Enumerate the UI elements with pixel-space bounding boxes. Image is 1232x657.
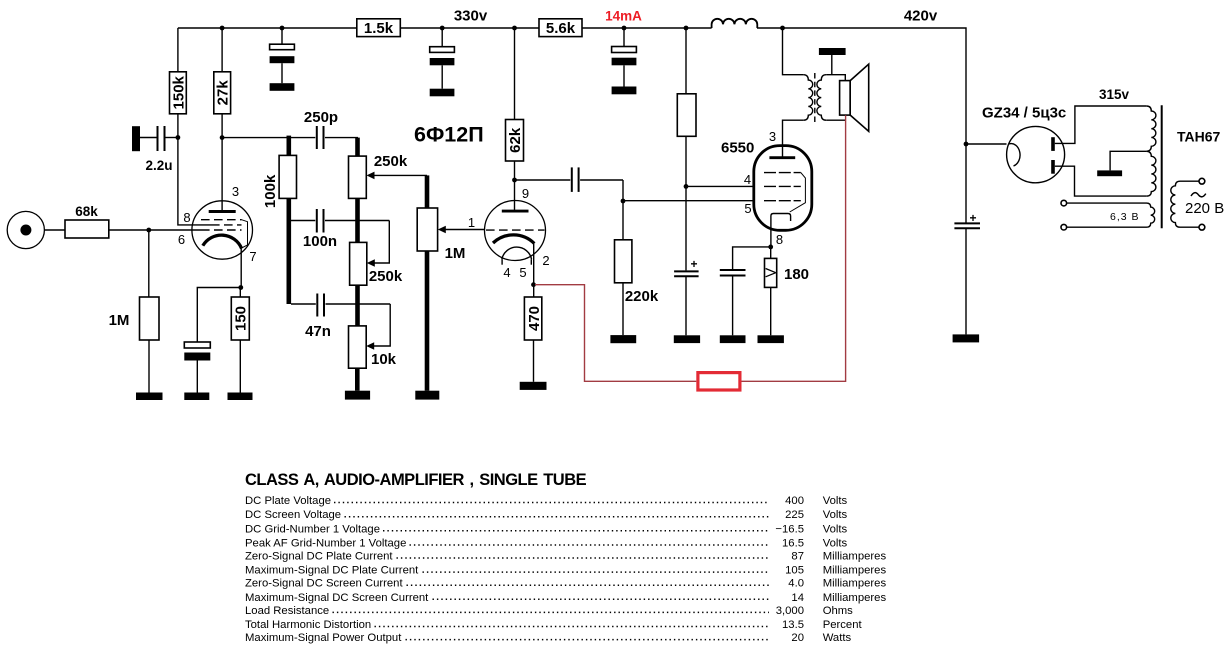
svg-text:6550: 6550 <box>721 140 754 157</box>
svg-text:6: 6 <box>178 232 185 247</box>
triode V1a (6F12P) <box>192 201 253 259</box>
svg-text:+: + <box>691 257 698 271</box>
resistor 1.5k <box>357 19 401 37</box>
svg-text:Total Harmonic Distortion: Total Harmonic Distortion <box>245 619 371 631</box>
svg-text:470: 470 <box>526 306 543 331</box>
svg-text:5: 5 <box>519 265 526 280</box>
cathode <box>203 235 242 248</box>
resistor 100k <box>279 155 296 198</box>
core <box>1161 105 1163 228</box>
wire PSU <box>964 142 969 147</box>
wire to grid <box>109 229 201 231</box>
wire top rail segment 2 <box>400 27 539 29</box>
svg-text:DC Plate Voltage: DC Plate Voltage <box>245 495 331 507</box>
pot 250k top <box>355 138 360 157</box>
svg-text:Maximum-Signal DC Plate Curren: Maximum-Signal DC Plate Current <box>245 565 419 577</box>
svg-text:Milliamperes: Milliamperes <box>823 551 887 563</box>
capacitor 250p <box>291 137 315 139</box>
svg-text:Milliamperes: Milliamperes <box>823 578 887 590</box>
ground <box>415 391 439 400</box>
ground <box>610 335 636 343</box>
ground <box>520 382 547 390</box>
svg-text:Watts: Watts <box>823 632 852 644</box>
svg-text:220 В: 220 В <box>1185 200 1224 217</box>
ground <box>270 83 295 91</box>
svg-text:100k: 100k <box>262 174 279 208</box>
svg-text:Zero-Signal DC Plate Current: Zero-Signal DC Plate Current <box>245 551 393 563</box>
svg-text:Ohms: Ohms <box>823 605 853 617</box>
svg-text:3: 3 <box>769 129 776 144</box>
capacitor 2.2u <box>132 126 140 151</box>
wire cathode to 470 <box>533 244 535 298</box>
ground <box>612 87 637 95</box>
node anode junction of first triode <box>220 135 225 140</box>
svg-text:Zero-Signal DC Screen Current: Zero-Signal DC Screen Current <box>245 578 403 590</box>
ground <box>136 393 163 401</box>
resistor 220k <box>615 240 632 283</box>
capacitor 47n <box>291 303 316 305</box>
core <box>814 73 816 122</box>
svg-text:6,3 В: 6,3 В <box>1110 211 1140 223</box>
svg-text:10k: 10k <box>371 351 397 368</box>
resistor 470 <box>524 297 541 340</box>
svg-text:3: 3 <box>232 184 239 199</box>
wire grid4 <box>686 185 754 187</box>
svg-text:62k: 62k <box>507 127 524 153</box>
svg-text:CLASS A, AUDIO-AMPLIFIER , S: CLASS A, AUDIO-AMPLIFIER , SINGLE TUBE <box>245 471 587 489</box>
ground above secondary <box>831 55 833 75</box>
svg-text:400: 400 <box>785 495 804 507</box>
pot 1M volume <box>425 175 430 208</box>
primary winding 220V <box>1171 181 1180 227</box>
pot 10k <box>349 326 367 368</box>
speaker <box>840 81 851 116</box>
cathode 6550 <box>771 214 791 248</box>
red resistor (feedback, unlabeled) <box>698 373 740 390</box>
svg-text:150: 150 <box>233 306 250 331</box>
ground <box>953 334 980 342</box>
svg-text:2.2u: 2.2u <box>145 158 172 173</box>
svg-text:1.5k: 1.5k <box>364 20 394 37</box>
tube 6550 <box>754 146 812 231</box>
resistor 5.6k <box>539 19 582 37</box>
svg-text:150k: 150k <box>170 75 187 109</box>
input jack J1 <box>7 211 44 248</box>
grid rows <box>201 219 242 221</box>
svg-text:Volts: Volts <box>823 495 848 507</box>
inductor choke L1 <box>712 19 758 28</box>
svg-text:47n: 47n <box>305 323 331 340</box>
svg-text:27k: 27k <box>215 80 232 106</box>
svg-text:Volts: Volts <box>823 509 848 521</box>
svg-text:250k: 250k <box>374 153 408 170</box>
svg-text:20: 20 <box>791 632 804 644</box>
svg-text:68k: 68k <box>75 204 98 219</box>
svg-text:9: 9 <box>522 186 529 201</box>
svg-text:2: 2 <box>542 253 549 268</box>
svg-text:1M: 1M <box>109 312 130 329</box>
svg-text:250p: 250p <box>304 109 338 126</box>
cathode <box>493 235 534 244</box>
svg-text:8: 8 <box>183 210 190 225</box>
wire top rail segment 4 <box>757 28 966 223</box>
capacitor 100n <box>291 220 315 222</box>
svg-text:6Ф12П: 6Ф12П <box>414 123 484 147</box>
filament <box>502 247 532 259</box>
svg-text:8: 8 <box>776 232 783 247</box>
svg-text:180: 180 <box>784 266 809 283</box>
svg-text:4: 4 <box>503 265 510 280</box>
svg-text:315v: 315v <box>1099 87 1130 102</box>
capacitor C-filter3 (electrolytic) <box>623 28 625 47</box>
svg-text:Percent: Percent <box>823 619 863 631</box>
svg-text:DC Grid-Number 1 Voltage: DC Grid-Number 1 Voltage <box>245 523 380 535</box>
svg-text:TAH67: TAH67 <box>1177 129 1221 145</box>
junction dots on rail <box>220 26 225 31</box>
svg-text:Maximum-Signal Power Output: Maximum-Signal Power Output <box>245 632 402 644</box>
svg-text:5: 5 <box>744 201 751 216</box>
svg-text:14: 14 <box>791 592 804 604</box>
capacitor cathode bypass <box>197 288 241 343</box>
svg-text:Volts: Volts <box>823 523 848 535</box>
triode V1b (6F12P pentode section) <box>485 201 546 261</box>
svg-text:1M: 1M <box>445 245 466 262</box>
svg-text:4.0: 4.0 <box>788 578 804 590</box>
svg-text:16.5: 16.5 <box>782 538 804 550</box>
center tap to ground <box>1110 151 1146 170</box>
svg-text:Maximum-Signal DC Screen Curre: Maximum-Signal DC Screen Current <box>245 592 429 604</box>
svg-text:5.6k: 5.6k <box>546 20 576 37</box>
pot body link <box>355 198 360 242</box>
wire grid5 node <box>622 180 624 240</box>
svg-text:330v: 330v <box>454 8 488 25</box>
wire cathode <box>240 249 242 288</box>
ground <box>758 335 784 343</box>
svg-text:DC Screen Voltage: DC Screen Voltage <box>245 509 341 521</box>
resistor 1M <box>148 230 150 297</box>
capacitor C-filter2 (electrolytic) <box>441 28 443 47</box>
red feedback wire <box>535 285 696 382</box>
svg-text:Milliamperes: Milliamperes <box>823 592 887 604</box>
ground <box>430 89 455 97</box>
leader dots <box>333 503 770 640</box>
output transformer primary <box>783 28 804 75</box>
ground <box>184 393 209 401</box>
ground <box>345 391 370 400</box>
ground <box>228 393 253 401</box>
ground <box>720 335 746 343</box>
svg-text:4: 4 <box>744 172 751 187</box>
svg-text:Volts: Volts <box>823 538 848 550</box>
svg-text:7: 7 <box>249 249 256 264</box>
resistor screen (unlabeled) <box>685 28 687 94</box>
svg-text:250k: 250k <box>369 268 403 285</box>
svg-text:−16.5: −16.5 <box>775 523 804 535</box>
capacitor C-filter1 (electrolytic) <box>281 28 283 44</box>
svg-text:Load Resistance: Load Resistance <box>245 605 329 617</box>
svg-text:220k: 220k <box>625 288 659 305</box>
output transformer secondary <box>817 75 826 121</box>
wire thick left bus <box>286 198 291 304</box>
svg-text:Peak AF Grid-Number 1 Voltage: Peak AF Grid-Number 1 Voltage <box>245 538 406 550</box>
capacitor coupling <box>515 179 571 181</box>
resistor 150k <box>177 28 179 72</box>
wire thick 100k top <box>286 136 291 156</box>
resistor 180 (with arrow) <box>770 247 772 259</box>
capacitor cathode bypass 6550 <box>733 247 769 270</box>
svg-text:87: 87 <box>791 551 804 563</box>
svg-text:13.5: 13.5 <box>782 619 804 631</box>
resistor 27k <box>221 28 223 72</box>
resistor 68k <box>65 220 109 238</box>
svg-text:14mA: 14mA <box>605 9 642 24</box>
svg-text:Milliamperes: Milliamperes <box>823 565 887 577</box>
svg-text:1: 1 <box>468 215 475 230</box>
table rows <box>245 495 886 644</box>
wire top rail segment 3 <box>582 27 712 29</box>
resistor 62k <box>514 28 516 120</box>
svg-text:420v: 420v <box>904 8 938 25</box>
ground <box>674 335 700 343</box>
svg-text:GZ34 / 5ц3с: GZ34 / 5ц3с <box>982 105 1066 122</box>
heater winding 6.3V <box>1061 200 1067 206</box>
svg-text:225: 225 <box>785 509 804 521</box>
svg-text:3,000: 3,000 <box>776 605 804 617</box>
svg-text:105: 105 <box>785 565 804 577</box>
svg-text:100n: 100n <box>303 233 337 250</box>
resistor 150 <box>239 288 241 298</box>
wire top rail segment 1 <box>178 27 357 29</box>
pot 250k mid <box>350 242 367 285</box>
